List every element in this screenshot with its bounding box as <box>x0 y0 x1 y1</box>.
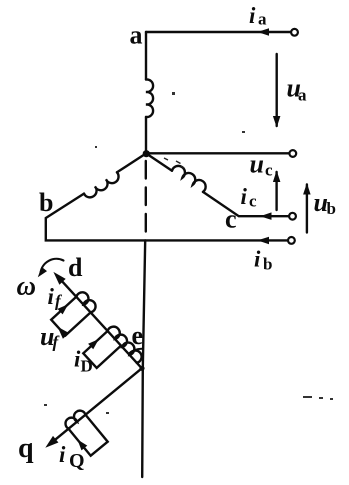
svg-text:d: d <box>68 253 83 282</box>
field winding f rectangle <box>51 297 90 336</box>
voltage arrow u_a <box>276 54 278 126</box>
svg-text:i: i <box>241 184 248 209</box>
angle arc theta <box>129 349 142 354</box>
svg-text:a: a <box>298 86 307 105</box>
current arrow i_c <box>260 212 272 220</box>
wire a vertical lower <box>145 117 147 153</box>
d-axis arrowhead <box>53 272 65 285</box>
wire phase c diagonal lower <box>203 192 289 216</box>
svg-text:Q: Q <box>69 450 85 472</box>
terminal a <box>291 29 298 36</box>
current arrow i_Q <box>77 440 87 451</box>
d-axis line <box>62 281 142 368</box>
rotor axis vertical line <box>142 240 145 477</box>
svg-text:i: i <box>48 284 55 309</box>
svg-text:c: c <box>249 192 257 211</box>
wire a vertical upper <box>145 32 147 80</box>
wire phase b diagonal lower <box>46 194 288 241</box>
q-axis arrowhead <box>45 436 58 448</box>
wire phase b diagonal upper <box>117 153 146 172</box>
svg-text:f: f <box>53 333 61 352</box>
svg-text:q: q <box>18 433 34 464</box>
svg-text:b: b <box>327 199 336 218</box>
svg-text:c: c <box>265 161 273 180</box>
current arrow i_b <box>258 237 270 245</box>
q-axis line <box>55 368 142 440</box>
damper winding Q coil <box>66 411 86 429</box>
svg-text:a: a <box>130 21 143 50</box>
svg-text:c: c <box>225 205 237 234</box>
damper winding D coil <box>108 327 142 363</box>
svg-text:i: i <box>59 442 66 467</box>
wire phase a horizontal <box>146 31 291 33</box>
small dashes near star point <box>164 158 184 168</box>
svg-text:i: i <box>254 247 261 272</box>
damper winding Q rectangle <box>69 415 108 456</box>
terminal neutral <box>289 150 296 157</box>
current arrow i_D <box>88 339 99 349</box>
neutral wire <box>146 152 289 154</box>
damper winding D rectangle <box>83 331 121 368</box>
terminal c <box>289 213 296 220</box>
voltage arrow u_f <box>58 327 70 339</box>
field winding f coil <box>76 292 95 312</box>
stator coil phase a <box>146 79 153 117</box>
wire phase c diagonal upper <box>146 154 172 171</box>
stator coil phase b <box>84 172 119 197</box>
svg-text:u: u <box>250 150 264 179</box>
svg-text:i: i <box>249 3 256 28</box>
star point junction dot <box>143 150 150 157</box>
omega curved arrow <box>41 259 64 273</box>
scan noise specks <box>44 92 333 414</box>
svg-text:ω: ω <box>17 271 37 301</box>
current arrow i_a <box>258 28 270 36</box>
junction blob <box>139 366 144 371</box>
svg-text:b: b <box>263 255 272 274</box>
dashed axis below star <box>145 161 147 238</box>
svg-text:b: b <box>39 188 53 217</box>
voltage arrow u_b <box>306 185 308 233</box>
voltage arrow u_c <box>275 172 277 210</box>
current arrow i_f <box>58 304 69 314</box>
svg-text:D: D <box>81 357 93 376</box>
terminal b <box>288 237 295 244</box>
svg-text:e: e <box>132 321 144 350</box>
svg-text:a: a <box>258 10 267 29</box>
stator coil phase c <box>172 166 206 192</box>
